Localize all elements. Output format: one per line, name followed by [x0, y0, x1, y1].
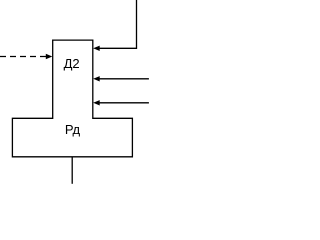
- wire input arrow 2: [99, 78, 149, 80]
- svg-text:Рд: Рд: [65, 122, 81, 137]
- arrowhead top feedback: [93, 46, 100, 51]
- wire top feedback line: [99, 0, 137, 48]
- wire bottom stem: [71, 157, 73, 183]
- arrowhead input 2: [93, 76, 100, 81]
- wire input arrow 3: [99, 102, 149, 104]
- arrowhead input 3: [93, 100, 100, 105]
- block Д2/Рд podium outline: [12, 40, 132, 157]
- svg-text:Д2: Д2: [64, 56, 80, 71]
- regulator block diagram: [0, 0, 151, 186]
- wire dashed input arrow: [0, 56, 46, 58]
- arrowhead dashed input: [46, 54, 53, 59]
